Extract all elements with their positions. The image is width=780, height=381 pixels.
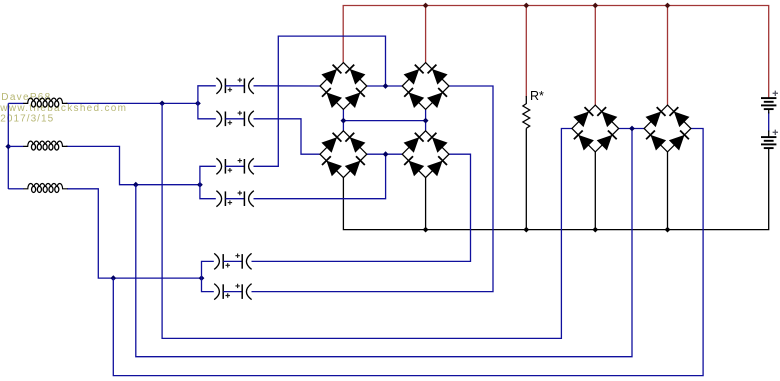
node AC node bridges 3-4 — [383, 151, 389, 157]
wire caps 1-2 left link — [198, 86, 216, 119]
wire red + bus top — [343, 6, 769, 99]
wire L3 left lead — [8, 188, 23, 190]
inductor L2 — [23, 141, 67, 150]
wire alternator star bus — [7, 103, 9, 189]
node L2 tap junction — [133, 182, 139, 188]
wire bridge4 - to bus — [425, 178, 427, 230]
wire battery1 bottom stub — [768, 109, 770, 113]
wire bridge3-bridge4 AC link — [367, 153, 403, 155]
capacitor pair C3 C4 — [216, 111, 253, 127]
wire bridge2- to bridge4+ link — [425, 109, 427, 130]
wire R* bottom lead — [525, 128, 527, 229]
node - bus junction bridge5 — [592, 227, 598, 233]
node DC link junction right — [423, 118, 429, 124]
node DC link junction left — [341, 118, 347, 124]
node red bus junction at R* — [523, 3, 529, 9]
resistor R* — [523, 96, 530, 128]
battery B2 — [761, 130, 778, 149]
wire L3 to caps 5-6 — [67, 189, 202, 278]
wire L2 to caps 3-4 — [66, 146, 200, 184]
node L3 tap junction — [110, 275, 116, 281]
wire caps 5-6 left link — [202, 261, 214, 291]
wire cap row6 to bridge2 AC — [252, 86, 494, 292]
bridge rectifier 3 — [320, 131, 367, 178]
wire red drop to R* — [525, 6, 527, 97]
wire L1 to caps 1-2 — [66, 102, 198, 104]
node red bus junction at bridge6 — [665, 3, 671, 9]
wire L2 left lead — [8, 145, 23, 147]
node AC node bridges 1-2 — [383, 83, 389, 89]
node star junction L2 — [5, 144, 11, 150]
capacitor pair C1 C2 — [216, 78, 253, 94]
wire bridge5-bridge6 AC link — [619, 128, 644, 130]
wire cap row1 to bridge1 AC — [254, 85, 321, 87]
node - bus junction R* — [523, 227, 529, 233]
bridge rectifier 4 — [402, 131, 449, 178]
wire bridge6 - to bus — [667, 152, 669, 230]
wire L1 left lead — [8, 102, 23, 104]
bridge rectifier 6 — [644, 105, 691, 152]
capacitor pair C5 C6 — [216, 158, 253, 174]
wire cap row2 to bridge3 AC — [254, 119, 321, 154]
node caps 1-2 mid junction — [195, 101, 201, 107]
inductor L3 — [23, 184, 67, 193]
node - bus junction bridge6 — [665, 227, 671, 233]
wire phase B down run — [136, 129, 632, 357]
node caps 5-6 mid junction — [199, 275, 205, 281]
capacitor pair C11 C12 — [214, 284, 251, 300]
capacitor pair C9 C10 — [214, 253, 251, 269]
wire mid DC link — [343, 120, 425, 122]
wire bridge1- to bridge3+ link — [342, 109, 344, 130]
wire bridge1-bridge2 AC link — [367, 85, 402, 87]
wire red drop to bridge5 + — [594, 6, 596, 106]
node - bus junction bridge4 — [423, 227, 429, 233]
node red bus junction at bridge5 — [592, 3, 598, 9]
wire caps 3-4 left link — [200, 166, 216, 198]
node L1 tap junction — [159, 101, 165, 107]
wire cap row5 to bridge4 AC — [252, 154, 471, 261]
wire cap row4 to bridges 3-4 AC node — [254, 154, 386, 199]
node red bus junction at bridge2 — [423, 3, 429, 9]
svg-text:R*: R* — [530, 89, 544, 103]
wire phase A down run — [162, 103, 572, 338]
capacitor pair C7 C8 — [216, 191, 253, 207]
bridge rectifier 1 — [320, 63, 367, 110]
wire battery2 top stub — [768, 131, 770, 138]
wire cap row3 to bridges 1-2 AC node — [254, 36, 386, 166]
bridge rectifier 5 — [572, 105, 619, 152]
bridge rectifier 2 — [402, 63, 449, 110]
wire bridge5 - to bus — [594, 152, 596, 230]
wire battery link — [768, 112, 770, 132]
wire phase C down run — [113, 129, 703, 376]
wire red drop to bridge2 + — [425, 6, 427, 63]
node caps 3-4 mid junction — [197, 182, 203, 188]
battery B1 — [761, 91, 778, 110]
wire red drop to bridge6 + — [667, 6, 669, 106]
node AC node bridges 5-6 — [629, 126, 635, 132]
wire black - bus — [343, 148, 768, 230]
inductor L1 — [23, 98, 67, 107]
